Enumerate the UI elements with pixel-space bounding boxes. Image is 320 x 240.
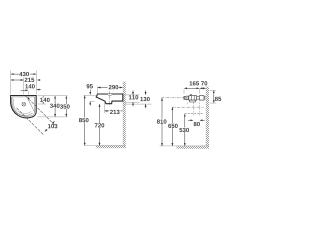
dim 140 text xyxy=(25,84,34,88)
dashed level 530 xyxy=(185,113,204,115)
wire: ext line top edge right xyxy=(38,94,68,96)
wire: ext line front at rim level xyxy=(84,94,97,96)
dim 650 xyxy=(171,108,173,146)
dash-dot centreline xyxy=(162,97,207,99)
bowl outer arc xyxy=(11,98,32,116)
dim 103 arrows xyxy=(52,121,55,124)
dim 430 xyxy=(11,73,36,75)
wire: extension line left edge up xyxy=(10,71,12,95)
dim 530 xyxy=(184,114,186,146)
dim 213 xyxy=(104,102,106,113)
diagonal dashed line A xyxy=(25,96,55,126)
wire: dashed drop supply 1 xyxy=(193,102,195,115)
text 95 + leader xyxy=(87,84,93,88)
fitting: left bar xyxy=(184,96,185,99)
dim 110 xyxy=(124,94,140,96)
fitting drain stub xyxy=(190,100,196,102)
diagonal dashed line B xyxy=(17,108,44,135)
wire: extension line centre (215) xyxy=(23,78,25,95)
wire: extension line right edge up xyxy=(35,71,37,95)
arrow to front bottom xyxy=(89,102,91,106)
dim 350 vertical xyxy=(65,96,67,117)
fixing hole dot xyxy=(28,98,30,100)
basin inner rim xyxy=(12,97,35,117)
dim 215 xyxy=(11,79,23,81)
wire: dashed drop supply 2 xyxy=(198,102,200,115)
dim 85 xyxy=(210,89,217,91)
dim 720 xyxy=(99,104,101,145)
bowl inner arc xyxy=(13,99,31,114)
dim 340 vertical xyxy=(54,96,56,117)
fitting body xyxy=(189,96,197,100)
wall hatch right xyxy=(206,87,209,147)
wire: ext line basin bottom right xyxy=(38,116,68,118)
fitting: valve wheel xyxy=(185,96,189,100)
bowl crease line xyxy=(28,99,35,112)
profile top slot xyxy=(108,94,111,96)
basin side profile xyxy=(96,94,123,104)
dim 140 arrows xyxy=(21,89,28,91)
floor middle xyxy=(96,145,126,148)
basin outer outline xyxy=(11,96,37,118)
dim 290 xyxy=(96,86,98,94)
wire: dashed drop from valve xyxy=(186,103,188,105)
dim 810 xyxy=(161,98,163,146)
fitting connector xyxy=(197,97,200,100)
wire: extension line from fixing dot xyxy=(27,91,29,94)
wall hatch middle xyxy=(123,82,126,146)
wire: ext line 140 bottom xyxy=(38,103,47,105)
dim 140 vertical xyxy=(42,96,44,104)
floor right xyxy=(177,146,210,149)
wire: ext line front bottom xyxy=(90,100,95,102)
arrow fragment right of 215 row xyxy=(37,79,40,81)
dim 130 xyxy=(124,103,152,105)
dim 80 xyxy=(188,119,193,121)
dashed level 650 xyxy=(172,106,204,108)
dim 850 xyxy=(84,96,86,146)
fitting wall flange xyxy=(199,96,204,100)
dash-dot centreline of drain xyxy=(109,91,111,106)
tap hole xyxy=(22,102,26,106)
dim 165 / 70 xyxy=(190,81,199,85)
